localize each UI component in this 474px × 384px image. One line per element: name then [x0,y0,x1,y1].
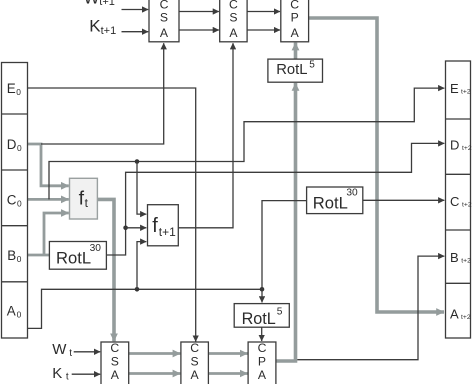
wire B0 to RotL30 left (gray) [28,254,50,257]
wire C0 branch to ft+1 and Et2 [49,88,444,199]
function block ft+1 [148,205,179,246]
rotator RotL30 right [307,187,363,214]
svg-text:W: W [52,341,67,358]
svg-text:0: 0 [17,143,22,153]
junction node RotL30/ft+1 [123,226,128,231]
svg-text:A: A [450,307,459,322]
svg-text:K: K [52,365,62,382]
wire bottom CSA2 to CPA carry+sum (gray) [208,354,247,374]
wire ft+1 output to top CSA2 [178,43,233,228]
svg-text:P: P [258,355,266,369]
label Dt2 [450,138,472,153]
adder CSA2 bottom row [181,341,209,384]
svg-text:0: 0 [16,87,21,97]
wire A0 up to RotL30 right [262,201,307,290]
rotator RotL5 top [268,59,323,82]
svg-text:S: S [191,355,199,369]
svg-text:A: A [229,26,238,40]
wire RotL5 bottom output to bottom CPA [261,327,263,341]
wire RotL30 left output to ft+1 and Dt2 [106,143,444,255]
wire Wt to bottom CSA1 [74,351,101,353]
svg-text:RotL: RotL [56,248,91,267]
register bank left E0-A0 [2,63,28,339]
svg-text:B: B [7,248,16,263]
svg-text:t+2: t+2 [461,257,471,264]
wire RotL30 right output to Ct2 [363,199,445,201]
label A0 [7,304,22,320]
svg-text:S: S [229,11,237,25]
wire junction to ft+1 input 1 [137,162,146,215]
svg-text:A: A [191,368,200,382]
svg-text:0: 0 [17,254,22,264]
svg-text:B: B [450,250,459,265]
wire A0 down to RotL5 bottom [261,289,263,302]
wire A0 main run [28,289,263,328]
svg-text:C: C [450,194,459,209]
svg-text:5: 5 [277,307,283,318]
wire bottom CPA branch to Bt2 [297,256,444,360]
svg-text:RotL: RotL [242,310,276,328]
label At2 [450,307,471,322]
wire E0 to bottom CSA2 [28,88,196,342]
label C0 [7,192,22,208]
adder CSA1 top row [149,0,179,42]
wire Kt+1 to top CSA1 [122,31,149,33]
svg-text:30: 30 [346,188,358,199]
label Bt2 [450,250,471,265]
svg-text:t: t [69,348,72,359]
svg-text:RotL: RotL [313,193,348,212]
adder CPA bottom row [248,341,276,384]
wire B0 branch to ft input 3 (gray) [44,213,69,255]
svg-text:t+2: t+2 [462,145,472,152]
svg-text:t+1: t+1 [99,0,115,8]
svg-text:t+1: t+1 [159,225,176,239]
svg-text:E: E [450,81,459,96]
wire D0 branch to top CSA1 [41,43,164,144]
svg-text:W: W [84,0,100,7]
wire D0 to ft (gray) [28,144,69,186]
svg-text:t+2: t+2 [461,89,471,96]
rotator RotL30 left [49,242,106,270]
adder CSA2 top row [220,0,247,42]
wire RotL5 top output to top CPA (gray) [294,43,298,60]
adder CPA top row [281,0,309,42]
svg-text:A: A [111,368,120,382]
wire Wt+1 to top CSA1 [122,9,149,11]
wire ft output to bottom CSA1 (gray) [97,199,114,341]
svg-text:t+1: t+1 [101,25,117,37]
junction node A0/ft+1 [135,287,140,292]
wire C0 to ft (gray) [28,198,69,201]
adder CSA1 bottom row [101,341,129,384]
svg-text:5: 5 [309,60,315,71]
svg-text:C: C [190,341,199,355]
svg-text:D: D [7,137,17,152]
rotator RotL5 bottom [234,304,289,328]
wire top CSA1 to CSA2 carry+sum [179,12,219,31]
label Wt+1 [84,0,115,8]
label Ct2 [450,194,472,209]
wire bottom CPA output to RotL5 top (gray) [276,83,296,361]
label B0 [7,248,22,264]
label D0 [7,137,22,153]
label Wt [52,341,72,359]
svg-text:C: C [258,341,267,355]
svg-text:RotL: RotL [276,62,307,78]
svg-text:D: D [450,138,459,153]
svg-text:t+2: t+2 [462,201,472,208]
svg-text:30: 30 [90,243,102,254]
wire bottom CSA1 to CSA2 carry+sum (gray) [129,354,181,374]
junction node C0/ft+1 [135,159,140,164]
svg-text:S: S [111,355,119,369]
svg-text:0: 0 [17,198,22,208]
svg-text:A: A [258,368,267,382]
label Et2 [450,81,471,96]
label Kt+1 [89,17,116,37]
svg-text:A: A [160,26,169,40]
wire Kt to bottom CSA1 [72,373,101,375]
svg-text:P: P [291,11,299,25]
svg-text:C: C [7,192,17,207]
wire junction to ft+1 input 3 [137,242,146,290]
wire top CPA output to At2 (gray) [309,18,444,312]
svg-text:K: K [89,17,101,36]
svg-text:0: 0 [17,309,22,319]
label E0 [7,81,21,97]
svg-text:A: A [291,26,300,40]
svg-text:S: S [160,11,168,25]
wire junction to ft+1 input 2 [126,227,147,229]
svg-text:E: E [7,81,16,96]
svg-text:t: t [66,371,69,382]
junction node A0/RotL5 [260,287,265,292]
label Kt [52,365,69,383]
svg-text:t+2: t+2 [461,314,471,321]
register bank right Et2-At2 [446,61,471,338]
function block ft [70,178,98,219]
svg-text:C: C [110,341,119,355]
svg-text:A: A [7,304,16,319]
svg-text:f: f [152,215,158,237]
wire top CSA2 to CPA carry+sum [247,12,280,31]
